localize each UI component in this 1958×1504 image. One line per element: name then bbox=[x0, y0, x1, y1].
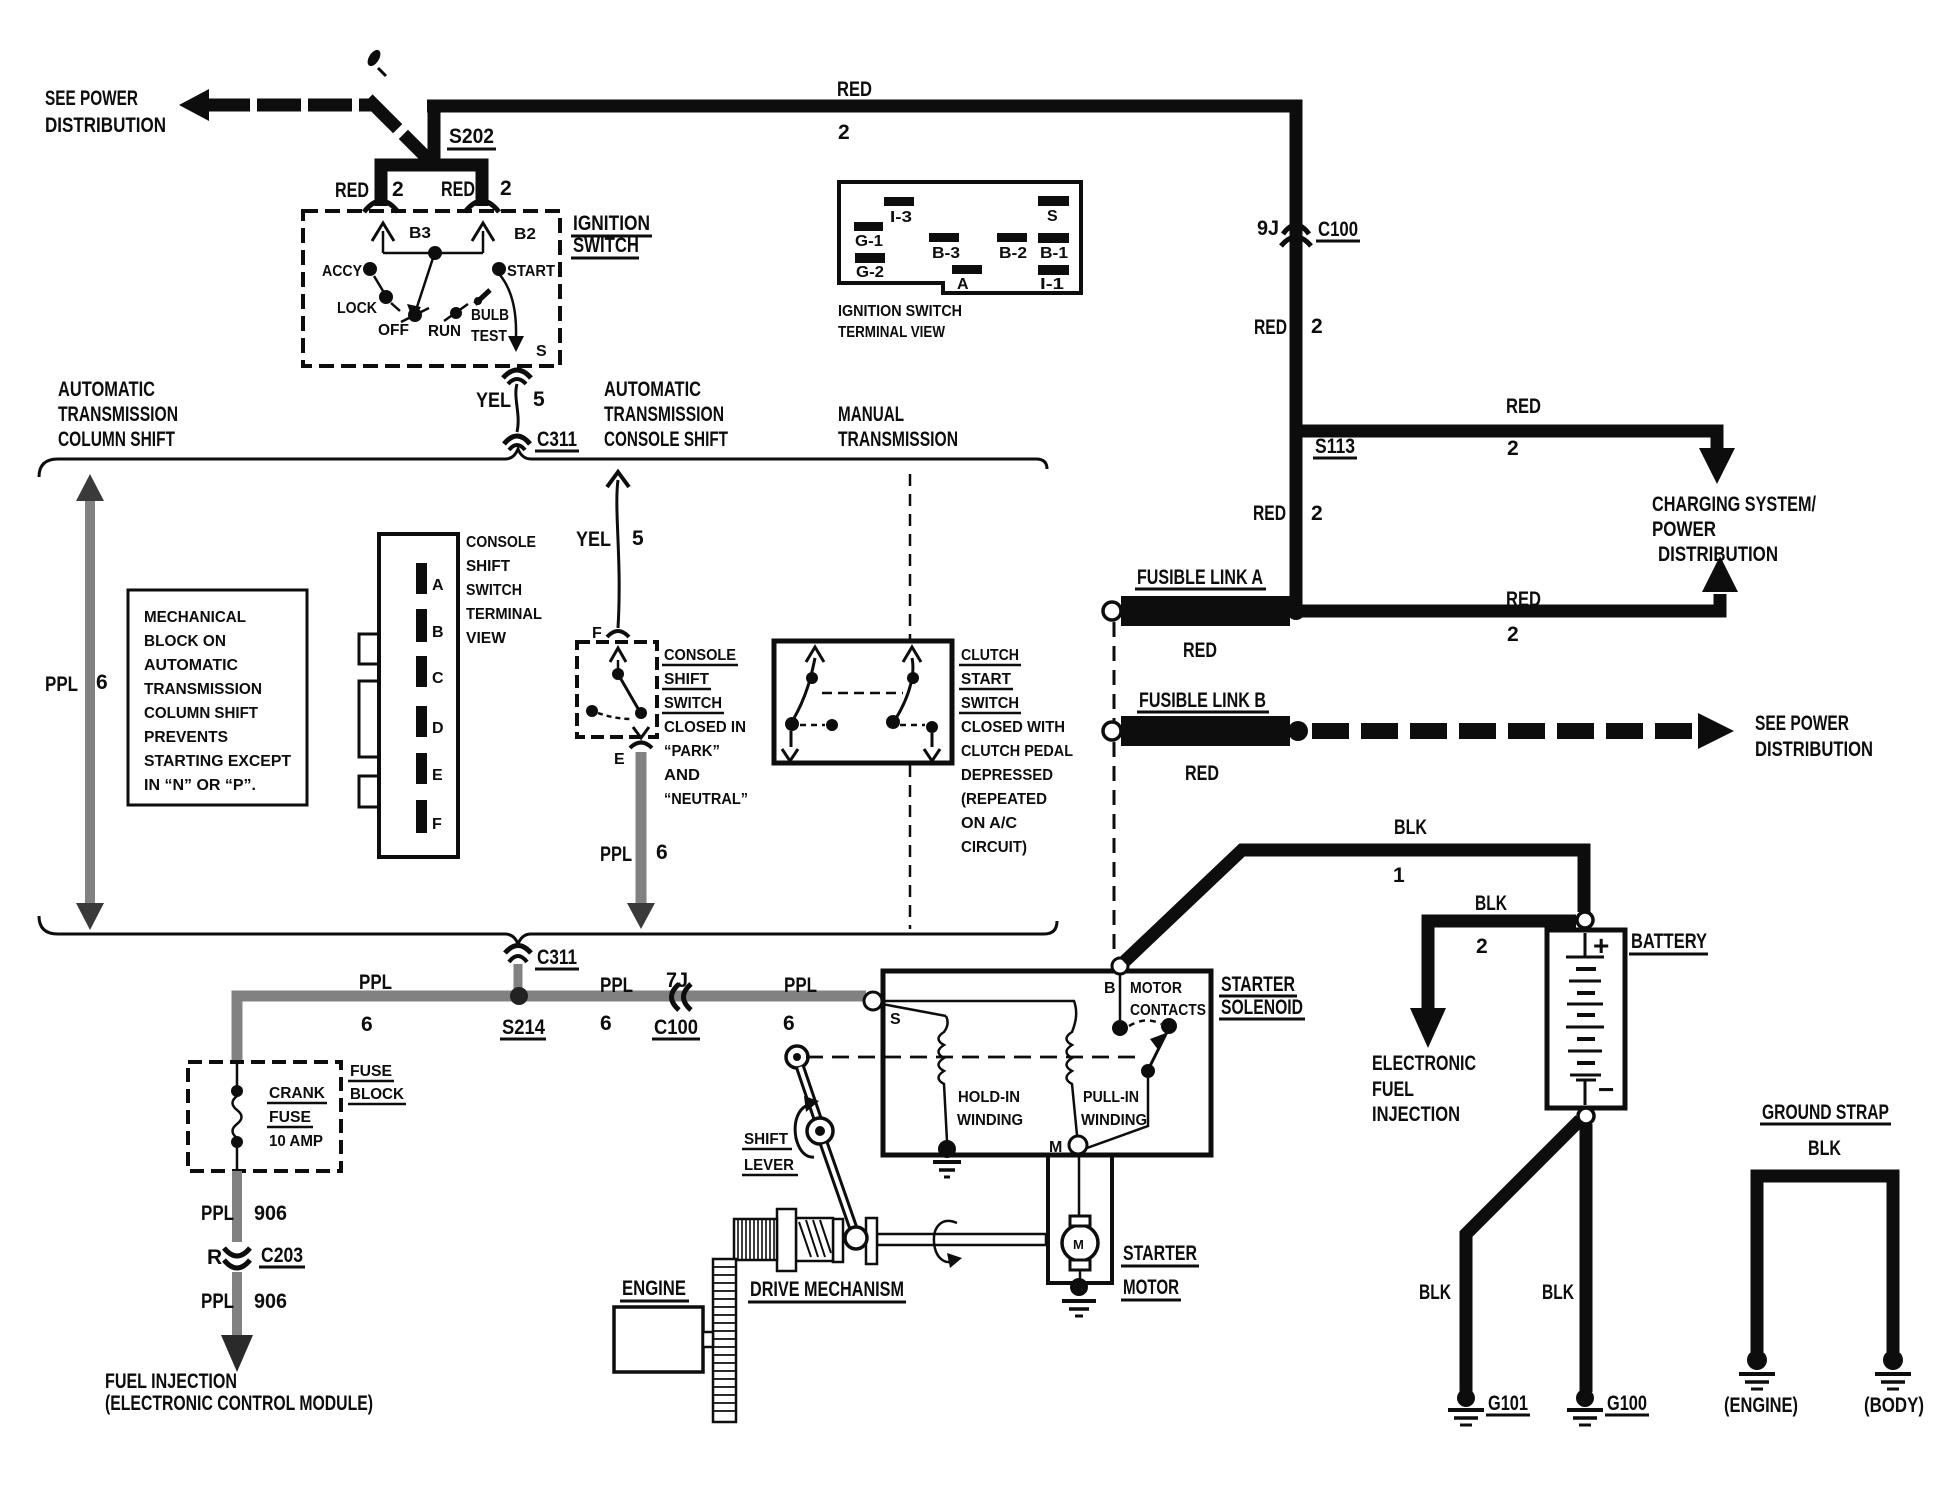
svg-text:6: 6 bbox=[96, 671, 108, 694]
svg-text:RED: RED bbox=[1185, 762, 1219, 785]
svg-text:ELECTRONIC: ELECTRONIC bbox=[1372, 1052, 1476, 1075]
svg-text:SEE POWER: SEE POWER bbox=[1755, 712, 1849, 735]
svg-text:PPL: PPL bbox=[201, 1202, 234, 1225]
svg-text:RED: RED bbox=[1254, 316, 1287, 339]
svg-text:BLOCK: BLOCK bbox=[350, 1086, 404, 1103]
svg-text:I-3: I-3 bbox=[890, 209, 912, 226]
svg-text:I-1: I-1 bbox=[1040, 276, 1064, 293]
svg-text:906: 906 bbox=[254, 1290, 287, 1313]
svg-text:INJECTION: INJECTION bbox=[1372, 1103, 1460, 1126]
svg-text:B-2: B-2 bbox=[999, 245, 1027, 262]
svg-text:C100: C100 bbox=[1318, 218, 1358, 241]
svg-text:CLOSED WITH: CLOSED WITH bbox=[961, 719, 1065, 736]
svg-text:B: B bbox=[1104, 980, 1116, 997]
svg-text:G100: G100 bbox=[1607, 1392, 1647, 1415]
svg-text:YEL: YEL bbox=[576, 528, 611, 551]
svg-text:STARTER: STARTER bbox=[1221, 973, 1295, 996]
svg-text:TRANSMISSION: TRANSMISSION bbox=[604, 403, 724, 426]
svg-text:PPL: PPL bbox=[359, 971, 392, 994]
svg-text:S202: S202 bbox=[449, 125, 494, 148]
svg-text:9J: 9J bbox=[1257, 217, 1279, 240]
svg-text:FUSIBLE LINK A: FUSIBLE LINK A bbox=[1137, 566, 1263, 589]
svg-text:HOLD-IN: HOLD-IN bbox=[958, 1089, 1020, 1106]
svg-text:CRANK: CRANK bbox=[269, 1085, 325, 1102]
svg-text:2: 2 bbox=[1507, 623, 1519, 646]
svg-text:COLUMN SHIFT: COLUMN SHIFT bbox=[144, 705, 258, 722]
svg-text:MECHANICAL: MECHANICAL bbox=[144, 609, 246, 626]
svg-text:S214: S214 bbox=[502, 1016, 545, 1039]
svg-text:RED: RED bbox=[441, 178, 475, 201]
svg-text:YEL: YEL bbox=[476, 389, 511, 412]
svg-text:AUTOMATIC: AUTOMATIC bbox=[604, 378, 701, 401]
svg-text:C311: C311 bbox=[537, 946, 577, 969]
svg-text:BLK: BLK bbox=[1542, 1281, 1574, 1304]
svg-text:2: 2 bbox=[1507, 437, 1519, 460]
svg-text:AUTOMATIC: AUTOMATIC bbox=[144, 657, 238, 674]
svg-text:SHIFT: SHIFT bbox=[664, 671, 709, 688]
svg-text:PPL: PPL bbox=[600, 974, 633, 997]
svg-text:CHARGING SYSTEM/: CHARGING SYSTEM/ bbox=[1652, 493, 1816, 516]
svg-text:AUTOMATIC: AUTOMATIC bbox=[58, 378, 155, 401]
svg-text:WINDING: WINDING bbox=[1081, 1112, 1147, 1129]
svg-text:ENGINE: ENGINE bbox=[622, 1277, 686, 1300]
svg-text:TERMINAL: TERMINAL bbox=[466, 606, 542, 623]
svg-text:ON A/C: ON A/C bbox=[961, 815, 1017, 832]
svg-text:CONSOLE: CONSOLE bbox=[466, 534, 536, 551]
svg-text:CONSOLE SHIFT: CONSOLE SHIFT bbox=[604, 428, 728, 451]
svg-text:LEVER: LEVER bbox=[744, 1157, 794, 1174]
svg-text:TRANSMISSION: TRANSMISSION bbox=[144, 681, 262, 698]
svg-text:CLOSED IN: CLOSED IN bbox=[664, 719, 746, 736]
svg-text:D: D bbox=[432, 720, 444, 737]
svg-text:FUSE: FUSE bbox=[269, 1109, 311, 1126]
svg-text:2: 2 bbox=[392, 178, 404, 201]
svg-text:G-2: G-2 bbox=[856, 264, 884, 281]
svg-text:SHIFT: SHIFT bbox=[466, 558, 510, 575]
svg-text:COLUMN SHIFT: COLUMN SHIFT bbox=[58, 428, 175, 451]
svg-text:2: 2 bbox=[1476, 935, 1488, 958]
svg-text:SWITCH: SWITCH bbox=[466, 582, 522, 599]
svg-text:6: 6 bbox=[600, 1012, 612, 1035]
svg-text:6: 6 bbox=[783, 1012, 795, 1035]
svg-text:M: M bbox=[1073, 1237, 1084, 1252]
svg-text:MOTOR: MOTOR bbox=[1123, 1276, 1179, 1299]
svg-text:B: B bbox=[432, 624, 444, 641]
svg-text:VIEW: VIEW bbox=[466, 630, 507, 647]
svg-text:LOCK: LOCK bbox=[337, 300, 377, 317]
svg-text:AND: AND bbox=[664, 767, 700, 784]
svg-text:CIRCUIT): CIRCUIT) bbox=[961, 839, 1027, 856]
svg-text:POWER: POWER bbox=[1652, 518, 1716, 541]
svg-text:2: 2 bbox=[1311, 502, 1323, 525]
svg-text:FUSIBLE LINK B: FUSIBLE LINK B bbox=[1139, 689, 1266, 712]
svg-text:ACCY: ACCY bbox=[322, 263, 362, 280]
svg-text:FUEL INJECTION: FUEL INJECTION bbox=[105, 1370, 237, 1393]
svg-text:G-1: G-1 bbox=[855, 233, 883, 250]
svg-text:(REPEATED: (REPEATED bbox=[961, 791, 1047, 808]
svg-text:OFF: OFF bbox=[378, 322, 409, 339]
svg-text:(ELECTRONIC CONTROL MODULE): (ELECTRONIC CONTROL MODULE) bbox=[105, 1392, 373, 1415]
svg-text:S: S bbox=[890, 1011, 901, 1028]
svg-text:RED: RED bbox=[837, 78, 872, 101]
svg-text:5: 5 bbox=[632, 527, 644, 550]
svg-text:BATTERY: BATTERY bbox=[1631, 930, 1707, 953]
svg-text:TEST: TEST bbox=[471, 328, 507, 345]
svg-text:GROUND STRAP: GROUND STRAP bbox=[1762, 1101, 1889, 1124]
svg-text:TRANSMISSION: TRANSMISSION bbox=[58, 403, 178, 426]
svg-text:RED: RED bbox=[1506, 588, 1541, 611]
svg-text:SHIFT: SHIFT bbox=[744, 1131, 788, 1148]
svg-text:MOTOR: MOTOR bbox=[1130, 980, 1182, 997]
svg-text:SEE POWER: SEE POWER bbox=[45, 87, 138, 110]
svg-text:2: 2 bbox=[1311, 315, 1323, 338]
svg-text:−: − bbox=[1598, 1074, 1614, 1105]
svg-text:STARTING EXCEPT: STARTING EXCEPT bbox=[144, 753, 291, 770]
svg-text:RED: RED bbox=[1506, 395, 1541, 418]
svg-text:SWITCH: SWITCH bbox=[573, 234, 639, 257]
svg-text:DRIVE MECHANISM: DRIVE MECHANISM bbox=[750, 1278, 904, 1301]
svg-text:G101: G101 bbox=[1488, 1392, 1528, 1415]
svg-text:B3: B3 bbox=[409, 225, 431, 242]
svg-text:S113: S113 bbox=[1315, 435, 1355, 458]
svg-text:DISTRIBUTION: DISTRIBUTION bbox=[45, 114, 166, 137]
svg-text:C203: C203 bbox=[261, 1244, 303, 1267]
svg-text:5: 5 bbox=[533, 388, 545, 411]
svg-text:(ENGINE): (ENGINE) bbox=[1724, 1394, 1798, 1417]
svg-text:WINDING: WINDING bbox=[957, 1112, 1023, 1129]
svg-text:RUN: RUN bbox=[428, 323, 461, 340]
svg-text:C100: C100 bbox=[654, 1016, 698, 1039]
svg-text:2: 2 bbox=[500, 177, 512, 200]
svg-text:BLK: BLK bbox=[1808, 1137, 1841, 1160]
svg-text:BULB: BULB bbox=[471, 307, 509, 324]
svg-text:B2: B2 bbox=[514, 226, 536, 243]
svg-text:RED: RED bbox=[1253, 502, 1286, 525]
svg-text:2: 2 bbox=[838, 121, 850, 144]
svg-text:SWITCH: SWITCH bbox=[961, 695, 1019, 712]
svg-text:B-3: B-3 bbox=[932, 245, 960, 262]
svg-text:SWITCH: SWITCH bbox=[664, 695, 722, 712]
svg-text:S: S bbox=[536, 343, 547, 360]
svg-text:FUSE: FUSE bbox=[350, 1063, 392, 1080]
svg-text:F: F bbox=[432, 816, 442, 833]
svg-text:DISTRIBUTION: DISTRIBUTION bbox=[1755, 738, 1873, 761]
svg-text:RED: RED bbox=[1183, 639, 1217, 662]
svg-text:TRANSMISSION: TRANSMISSION bbox=[838, 428, 958, 451]
svg-text:TERMINAL VIEW: TERMINAL VIEW bbox=[838, 324, 946, 341]
svg-text:6: 6 bbox=[656, 841, 668, 864]
svg-text:906: 906 bbox=[254, 1202, 287, 1225]
svg-text:PPL: PPL bbox=[600, 843, 632, 866]
svg-text:C: C bbox=[432, 670, 444, 687]
svg-text:A: A bbox=[432, 577, 444, 594]
svg-text:PPL: PPL bbox=[45, 673, 78, 696]
svg-text:CLUTCH PEDAL: CLUTCH PEDAL bbox=[961, 743, 1073, 760]
svg-text:R: R bbox=[207, 1246, 222, 1269]
svg-text:BLK: BLK bbox=[1394, 816, 1427, 839]
svg-text:E: E bbox=[432, 767, 443, 784]
svg-text:CLUTCH: CLUTCH bbox=[961, 647, 1019, 664]
svg-text:PREVENTS: PREVENTS bbox=[144, 729, 228, 746]
svg-text:F: F bbox=[592, 625, 602, 642]
svg-text:FUEL: FUEL bbox=[1372, 1078, 1414, 1101]
svg-text:B-1: B-1 bbox=[1040, 245, 1068, 262]
svg-text:6: 6 bbox=[361, 1013, 373, 1036]
svg-text:MANUAL: MANUAL bbox=[838, 403, 904, 426]
svg-text:CONTACTS: CONTACTS bbox=[1130, 1002, 1206, 1019]
svg-text:STARTER: STARTER bbox=[1123, 1242, 1197, 1265]
svg-text:IGNITION SWITCH: IGNITION SWITCH bbox=[838, 303, 962, 320]
svg-text:E: E bbox=[614, 751, 625, 768]
svg-text:SOLENOID: SOLENOID bbox=[1221, 996, 1303, 1019]
svg-text:(BODY): (BODY) bbox=[1864, 1394, 1924, 1417]
svg-text:BLK: BLK bbox=[1475, 892, 1507, 915]
svg-text:RED: RED bbox=[335, 179, 369, 202]
svg-text:10 AMP: 10 AMP bbox=[269, 1133, 323, 1150]
svg-text:BLOCK ON: BLOCK ON bbox=[144, 633, 226, 650]
svg-text:START: START bbox=[961, 671, 1011, 688]
svg-text:START: START bbox=[507, 263, 555, 280]
svg-text:IN “N” OR “P”.: IN “N” OR “P”. bbox=[144, 777, 256, 794]
svg-text:BLK: BLK bbox=[1419, 1281, 1451, 1304]
svg-text:PULL-IN: PULL-IN bbox=[1083, 1089, 1139, 1106]
svg-text:PPL: PPL bbox=[784, 974, 817, 997]
svg-text:DEPRESSED: DEPRESSED bbox=[961, 767, 1053, 784]
svg-text:“PARK”: “PARK” bbox=[664, 743, 720, 760]
svg-text:PPL: PPL bbox=[201, 1290, 234, 1313]
svg-text:CONSOLE: CONSOLE bbox=[664, 647, 736, 664]
svg-text:A: A bbox=[957, 276, 969, 293]
svg-text:“NEUTRAL”: “NEUTRAL” bbox=[664, 791, 748, 808]
svg-text:IGNITION: IGNITION bbox=[573, 212, 650, 235]
svg-text:S: S bbox=[1047, 208, 1058, 225]
svg-text:1: 1 bbox=[1393, 864, 1405, 887]
svg-text:C311: C311 bbox=[537, 428, 577, 451]
